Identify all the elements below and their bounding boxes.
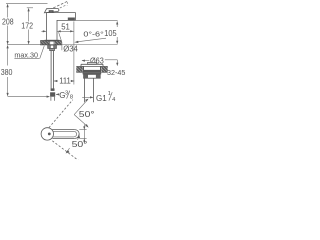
- dimension 172 line: [28, 10, 30, 22]
- svg-text:Ø34: Ø34: [63, 45, 78, 54]
- deck bottom line through faucet: [40, 44, 61, 46]
- top view inner contour: [53, 131, 76, 137]
- svg-text:max.30: max.30: [14, 50, 38, 59]
- top view base circle: [41, 128, 53, 140]
- dimension 172 extension line: [27, 7, 33, 9]
- lever neck: [49, 11, 53, 16]
- waste body collar: [83, 70, 100, 73]
- svg-text:111: 111: [59, 76, 71, 86]
- label diameter 34 with arrow: [61, 43, 63, 51]
- top view center dot: [48, 133, 51, 136]
- angle 50 upper: [74, 100, 88, 115]
- dimension 208 line: [7, 5, 9, 18]
- top view width dimension: [79, 129, 86, 131]
- angle 50 lower: [77, 137, 80, 140]
- svg-text:208: 208: [2, 17, 14, 26]
- faucet body and spout outline: [46, 13, 75, 41]
- dimension 32-45 leader from diameter 63: [105, 59, 118, 61]
- waste deck lines: [76, 65, 83, 67]
- outlet axis extension line: [73, 21, 75, 84]
- label diameter 63 with arrow: [82, 60, 89, 62]
- svg-text:0°-6°: 0°-6°: [83, 29, 103, 38]
- base flange: [45, 40, 60, 42]
- body width arrows: [41, 30, 46, 32]
- label G 1 1/4 with arrow: [82, 96, 93, 98]
- faucet lever raised dashed: [50, 1, 68, 9]
- main reference line at deck level: [7, 44, 40, 46]
- svg-text:8: 8: [70, 94, 73, 100]
- spout outlet level extension line: [76, 20, 118, 22]
- dimension 380 line: [7, 48, 9, 66]
- waste plug knob: [88, 62, 97, 64]
- hose end fitting: [51, 88, 55, 91]
- shank through deck: [49, 42, 51, 45]
- dimension 51: [57, 30, 73, 32]
- svg-text:G1: G1: [96, 94, 107, 103]
- svg-text:380: 380: [1, 68, 13, 77]
- dimension 105: [116, 23, 118, 27]
- waste pipe: [84, 78, 86, 102]
- deck hatch left: [40, 41, 49, 45]
- waste drain flange: [81, 63, 103, 65]
- svg-text:51: 51: [61, 22, 70, 31]
- faucet lever solid: [44, 9, 59, 13]
- swivel dashed ray lower: [52, 141, 78, 161]
- svg-text:172: 172: [21, 22, 33, 31]
- dimension 208 extension line top: [6, 3, 48, 5]
- svg-text:50°: 50°: [79, 109, 95, 119]
- waste washer: [83, 72, 102, 74]
- mounting nut: [48, 45, 57, 49]
- swivel dashed ray upper: [49, 100, 73, 128]
- aerator: [68, 18, 75, 21]
- svg-text:32-45: 32-45: [107, 68, 125, 77]
- svg-text:105: 105: [104, 29, 117, 38]
- waste deck hatch right: [101, 66, 107, 72]
- waste deck hatch left: [76, 66, 83, 72]
- waste locknut: [84, 74, 101, 78]
- supply hoses: [50, 51, 52, 89]
- deck hatch right: [55, 41, 62, 45]
- hose end level extension line: [8, 96, 47, 98]
- svg-text:50°: 50°: [72, 139, 88, 149]
- label G 3/8 with arrow: [56, 93, 59, 95]
- dimension 111: [54, 80, 58, 82]
- deck top line: [40, 40, 61, 42]
- waste body through deck: [83, 66, 85, 72]
- top view body outline: [52, 129, 75, 131]
